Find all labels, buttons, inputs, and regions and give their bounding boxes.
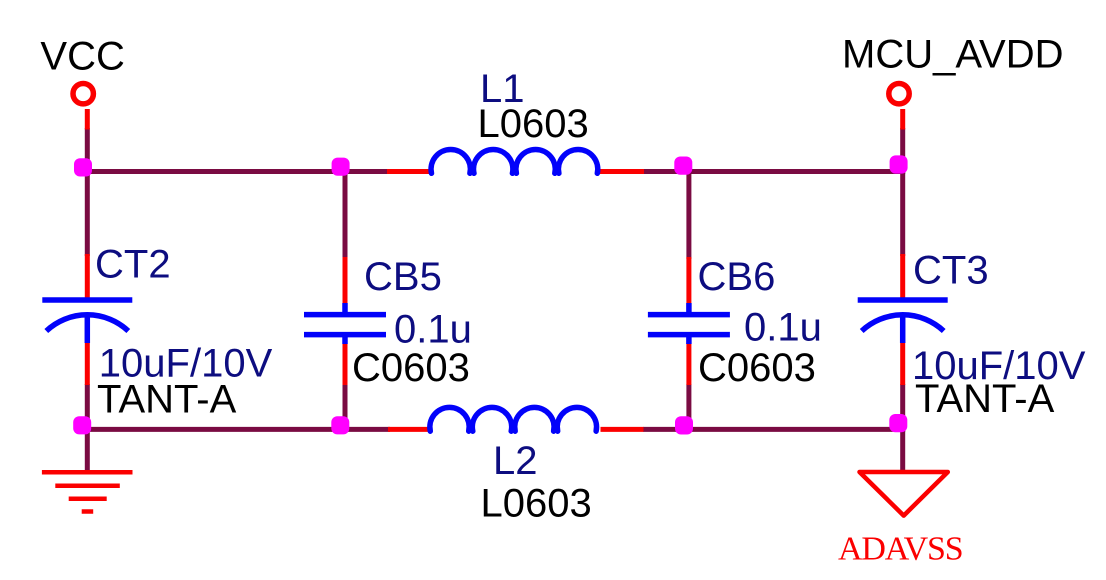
svg-text:0.1u: 0.1u [394,308,472,352]
svg-text:MCU_AVDD: MCU_AVDD [842,33,1064,77]
svg-text:0.1u: 0.1u [744,306,822,350]
svg-text:L2: L2 [493,439,538,483]
svg-text:CB6: CB6 [698,255,776,299]
svg-text:CB5: CB5 [364,255,442,299]
svg-text:TANT-A: TANT-A [915,377,1055,421]
svg-text:L0603: L0603 [478,102,589,146]
svg-text:CT2: CT2 [95,243,171,287]
svg-text:VCC: VCC [40,35,124,79]
svg-text:ADAVSS: ADAVSS [838,531,962,568]
svg-text:L0603: L0603 [481,482,592,526]
svg-text:C0603: C0603 [698,346,816,390]
svg-text:TANT-A: TANT-A [97,378,237,422]
svg-text:CT3: CT3 [913,249,989,293]
svg-text:C0603: C0603 [352,346,470,390]
